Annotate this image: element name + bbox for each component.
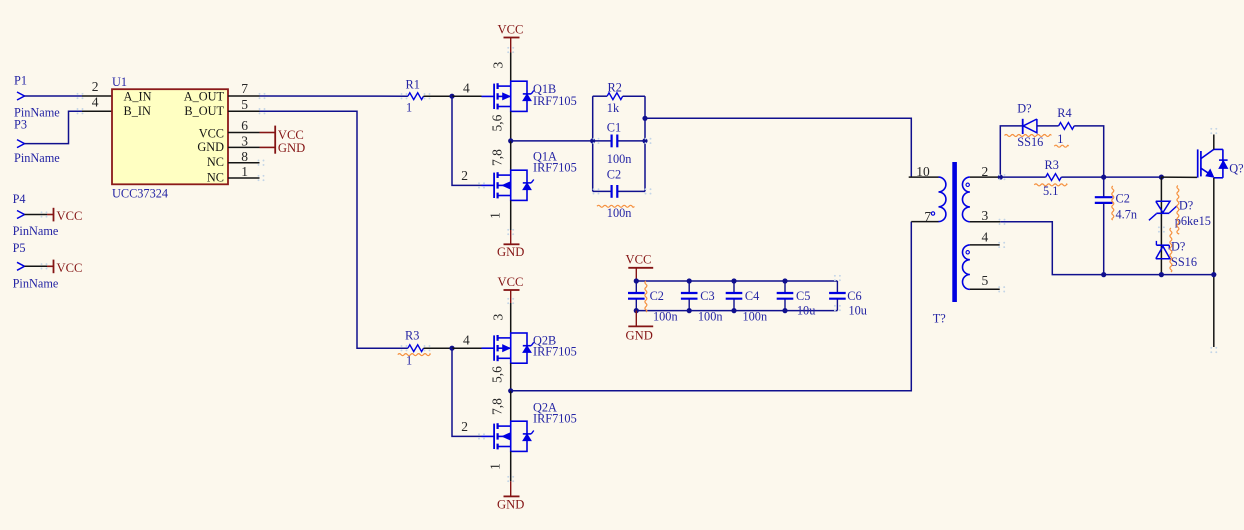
svg-text:100n: 100n — [698, 310, 723, 324]
node at TVS top — [1159, 175, 1164, 180]
svg-text:VCC: VCC — [199, 127, 224, 141]
svg-text:4: 4 — [463, 80, 470, 95]
svg-text:PinName: PinName — [13, 224, 59, 238]
svg-text:1: 1 — [1057, 132, 1063, 146]
wire P4 — [25, 214, 48, 216]
junction dots at C5 — [782, 278, 787, 313]
wire P1 to U1 pin 2 — [25, 95, 83, 97]
svg-text:100n: 100n — [743, 310, 768, 324]
svg-text:VCC: VCC — [498, 23, 524, 37]
wire node to Q2B gate — [452, 332, 482, 348]
svg-text:4: 4 — [463, 332, 470, 347]
svg-text:p6ke15: p6ke15 — [1175, 214, 1211, 228]
wire node down to Q2A gate — [452, 348, 482, 436]
svg-text:D?: D? — [1017, 102, 1031, 116]
capacitor C2 100n (snubber) — [593, 168, 645, 221]
wire R1 to node — [424, 95, 453, 97]
diode D? SS16 (top) — [1005, 102, 1052, 150]
label T? — [933, 312, 946, 326]
power port VCC-GND bar at U1 — [260, 126, 306, 155]
svg-text:P3: P3 — [14, 118, 27, 132]
wire Q2B source to node — [490, 363, 511, 391]
wire node down to Q1A drain — [490, 141, 511, 170]
svg-text:C2: C2 — [650, 289, 664, 303]
junction dots at C4 — [731, 278, 736, 313]
transistor Q1B IRF7105 (P-channel) — [482, 81, 577, 111]
node R3-R4 junction — [1101, 175, 1106, 180]
capacitor C6 10u (bank) — [829, 281, 867, 318]
svg-text:VCC: VCC — [57, 261, 83, 275]
svg-text:R3: R3 — [1045, 158, 1059, 172]
wire U1 pin7 to R1 — [260, 95, 408, 97]
svg-text:PinName: PinName — [13, 277, 59, 291]
svg-text:B_IN: B_IN — [124, 104, 151, 118]
svg-text:R3: R3 — [405, 329, 419, 343]
wire Q1B source to node — [490, 111, 511, 140]
pin 6 of U1 — [228, 118, 260, 133]
svg-text:6: 6 — [241, 118, 248, 133]
resistor R1 — [406, 78, 424, 115]
wire VCC to Q1B drain — [490, 53, 510, 82]
pin 1 of U1 — [228, 164, 260, 179]
svg-text:1: 1 — [488, 463, 503, 470]
svg-text:100n: 100n — [607, 206, 632, 220]
wire node to Q1B gate — [452, 80, 482, 96]
svg-text:GND: GND — [197, 140, 224, 154]
svg-text:VCC: VCC — [57, 209, 83, 223]
node RC output top — [642, 116, 647, 121]
node Q2 output — [508, 388, 513, 393]
svg-text:7: 7 — [241, 81, 248, 96]
diode D? SS16 (bottom) — [1156, 228, 1197, 272]
resistor R4 — [1054, 106, 1074, 147]
svg-text:R4: R4 — [1057, 106, 1071, 120]
node C1 right — [642, 138, 647, 143]
wire pin2 node to R3 — [1000, 176, 1045, 178]
wire diode to R4 — [1037, 125, 1059, 127]
wire Q1 node to RC network — [511, 140, 593, 142]
power port VCC at P4 — [47, 208, 82, 223]
svg-text:IRF7105: IRF7105 — [533, 94, 577, 108]
pin 8 of U1 — [228, 149, 260, 164]
cap bank top rail — [636, 280, 837, 282]
svg-text:3: 3 — [490, 314, 505, 321]
svg-text:2: 2 — [461, 419, 468, 434]
op-amp driver U1 UCC37324 body — [112, 75, 228, 201]
IGBT collector wire — [1213, 135, 1215, 150]
resistor R2 — [593, 81, 645, 116]
wire Q2 node to transformer pin 7 — [511, 222, 912, 391]
resistor R3 (5.1) — [1034, 158, 1067, 198]
capacitor C5 10u (bank) — [777, 281, 816, 318]
wire node down to Q2A drain — [490, 391, 511, 421]
svg-text:IRF7105: IRF7105 — [533, 412, 577, 426]
power port GND below Q2A — [497, 481, 524, 511]
diode D? p6ke15 (TVS) — [1149, 186, 1211, 235]
svg-text:GND: GND — [278, 141, 305, 155]
svg-text:VCC: VCC — [626, 253, 652, 267]
wire node to IGBT gate — [1161, 176, 1197, 178]
svg-text:4.7n: 4.7n — [1116, 208, 1138, 222]
svg-text:C4: C4 — [745, 289, 759, 303]
transistor Q1A IRF7105 (N-channel) — [482, 150, 577, 201]
svg-text:C2: C2 — [607, 168, 621, 182]
svg-text:T?: T? — [933, 312, 946, 326]
svg-text:P1: P1 — [14, 74, 27, 88]
svg-text:GND: GND — [626, 329, 653, 343]
svg-text:2: 2 — [461, 168, 468, 183]
svg-text:P4: P4 — [13, 192, 26, 206]
svg-text:7,8: 7,8 — [490, 398, 505, 415]
svg-text:5: 5 — [241, 97, 248, 112]
svg-text:SS16: SS16 — [1171, 255, 1197, 269]
svg-text:D?: D? — [1171, 240, 1185, 254]
node Q1 output — [508, 138, 513, 143]
wire P3 to U1 pin 4 — [25, 111, 83, 143]
svg-text:10u: 10u — [797, 304, 815, 318]
power port VCC at capacitor bank — [626, 253, 654, 282]
pin 5 of U1 — [228, 97, 260, 112]
wire U1 pin5 to R3 (lower) — [260, 111, 408, 348]
svg-text:8: 8 — [241, 149, 248, 164]
svg-text:1: 1 — [241, 164, 248, 179]
pin 7 of U1 — [228, 81, 260, 96]
svg-text:4: 4 — [92, 95, 99, 110]
wire Q2A source down — [488, 451, 511, 481]
connector P4 — [13, 192, 59, 238]
svg-text:3: 3 — [241, 134, 248, 149]
transformer T? core — [952, 162, 957, 302]
svg-text:SS16: SS16 — [1017, 135, 1043, 149]
wire pin2 node up to diode branch — [1000, 126, 1022, 177]
svg-text:GND: GND — [497, 245, 524, 259]
svg-text:IRF7105: IRF7105 — [533, 345, 577, 359]
svg-text:5,6: 5,6 — [490, 114, 505, 131]
RC network left rail — [592, 96, 594, 191]
wire RC output to transformer pin 10 — [645, 118, 911, 177]
wire R4 to node — [1074, 126, 1104, 177]
capacitor C1 100n — [593, 121, 645, 167]
power port VCC above Q2B — [498, 275, 524, 303]
svg-text:4: 4 — [982, 230, 989, 245]
connector P1 — [14, 74, 60, 120]
svg-text:R2: R2 — [608, 81, 622, 95]
svg-text:3: 3 — [982, 208, 989, 223]
node at transformer pin 2 — [998, 175, 1003, 180]
svg-text:GND: GND — [497, 498, 524, 512]
svg-text:IRF7105: IRF7105 — [533, 161, 577, 175]
svg-text:C1: C1 — [607, 121, 621, 135]
svg-text:D?: D? — [1179, 199, 1193, 213]
svg-text:VCC: VCC — [498, 275, 524, 289]
error squiggle at cap bank — [645, 281, 647, 312]
pin 4 of U1 — [82, 95, 112, 112]
svg-text:7,8: 7,8 — [490, 149, 505, 166]
svg-text:1: 1 — [406, 101, 412, 115]
svg-text:2: 2 — [982, 164, 989, 179]
transformer T? primary winding pins 10-7 — [909, 164, 946, 224]
capacitor C3 100n (bank) — [681, 281, 723, 324]
svg-text:C6: C6 — [847, 289, 861, 303]
capacitor C2 4.7n — [1095, 177, 1137, 275]
svg-text:5: 5 — [982, 273, 989, 288]
svg-text:100n: 100n — [653, 310, 678, 324]
svg-text:R1: R1 — [406, 78, 420, 92]
svg-text:C3: C3 — [700, 289, 714, 303]
transformer T? secondary winding pins 2-3 — [962, 164, 1000, 223]
transformer T? secondary winding pins 4-5 — [963, 230, 1000, 290]
svg-text:P5: P5 — [13, 241, 26, 255]
svg-text:PinName: PinName — [14, 151, 60, 165]
wire R3 to node — [1061, 176, 1103, 178]
svg-text:10: 10 — [916, 164, 930, 179]
svg-text:100n: 100n — [607, 152, 632, 166]
power port GND below Q1A — [497, 230, 524, 259]
node at R1 output — [449, 94, 454, 99]
node rail-C2 — [1101, 272, 1106, 277]
power port VCC at P5 — [47, 260, 82, 275]
power port VCC above Q1B — [498, 23, 524, 53]
node rail-SS16 — [1159, 272, 1164, 277]
connector P5 — [13, 241, 59, 291]
pin 2 of U1 — [82, 79, 112, 96]
capacitor C4 100n (bank) — [726, 281, 767, 324]
connector P3 — [14, 118, 60, 166]
svg-text:10u: 10u — [849, 304, 867, 318]
wire TVS branch vertical — [1160, 177, 1162, 275]
node at RC network input — [590, 138, 595, 143]
junction dots at C2 — [634, 278, 639, 313]
svg-text:C2: C2 — [1116, 192, 1130, 206]
resistor R3 (gate, value 1) — [398, 329, 431, 368]
svg-text:1: 1 — [488, 212, 503, 219]
wire node down to Q1A gate — [452, 96, 482, 185]
wire P5 — [25, 265, 48, 267]
svg-text:A_IN: A_IN — [124, 89, 152, 103]
svg-text:5,6: 5,6 — [490, 366, 505, 383]
wire transformer pin3 to bottom rail — [1000, 222, 1214, 275]
junction dots at C3 — [687, 278, 692, 313]
RC network right rail — [644, 96, 646, 191]
power port GND at capacitor bank — [626, 311, 654, 343]
transistor Q? IGBT — [1198, 149, 1244, 177]
svg-text:1k: 1k — [607, 101, 620, 115]
node at R3 output — [449, 346, 454, 351]
wire VCC to Q2B drain — [490, 303, 510, 333]
svg-text:3: 3 — [490, 62, 505, 69]
capacitor C2 100n (bank) — [628, 281, 678, 324]
svg-text:B_OUT: B_OUT — [184, 104, 224, 118]
transistor Q2A IRF7105 (N-channel) — [482, 401, 577, 452]
svg-text:Q?: Q? — [1229, 162, 1243, 176]
svg-text:A_OUT: A_OUT — [184, 89, 225, 103]
pin 3 of U1 — [228, 134, 260, 149]
svg-text:NC: NC — [207, 155, 224, 169]
transistor Q2B IRF7105 (P-channel) — [482, 333, 577, 363]
svg-text:NC: NC — [207, 170, 224, 184]
svg-text:7: 7 — [924, 209, 931, 224]
svg-text:2: 2 — [92, 79, 99, 94]
cap bank bottom rail — [636, 310, 837, 312]
wire node to TVS branch — [1104, 176, 1162, 178]
node rail-emitter — [1211, 272, 1216, 277]
IGBT emitter wire — [1213, 178, 1215, 347]
svg-text:C5: C5 — [796, 289, 810, 303]
svg-text:UCC37324: UCC37324 — [112, 187, 168, 201]
wire Q1A source down — [488, 200, 511, 230]
svg-text:U1: U1 — [112, 75, 127, 89]
compile markers — [41, 47, 1218, 482]
wire R3 to node — [424, 347, 453, 349]
